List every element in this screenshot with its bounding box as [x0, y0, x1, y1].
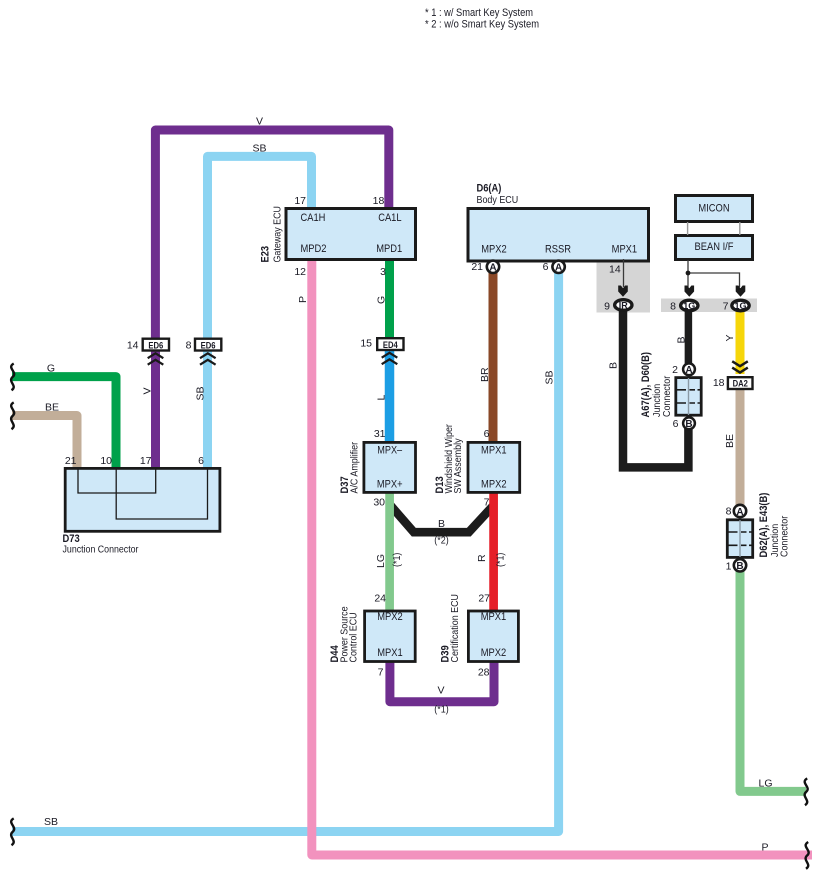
svg-text:21: 21: [471, 261, 483, 273]
svg-text:MPX+: MPX+: [377, 479, 403, 491]
BEAN I/F box: [676, 236, 753, 260]
pin 6 + node A (body RSSR): [543, 261, 565, 274]
svg-text:MPX2: MPX2: [481, 244, 507, 256]
svg-text:ED6: ED6: [148, 340, 163, 350]
svg-text:A/C Amplifier: A/C Amplifier: [349, 441, 361, 493]
connector DA2 (pin 18): [728, 377, 753, 389]
squiggle (SB wire left edge): [11, 818, 14, 845]
svg-text:G: G: [376, 296, 388, 304]
svg-text:D6(A): D6(A): [477, 183, 502, 195]
svg-text:(*2): (*2): [434, 535, 448, 547]
svg-text:SW Assembly: SW Assembly: [452, 438, 464, 494]
svg-text:(*1): (*1): [495, 553, 507, 567]
squiggle (LG wire right edge): [805, 778, 808, 805]
svg-text:CA1H: CA1H: [301, 212, 326, 224]
svg-text:B: B: [608, 362, 620, 369]
wire G (Gateway MPD1 pin 3 down to ED4 connector): [385, 259, 394, 340]
pin 21 + node A (body MPX2): [471, 261, 499, 274]
svg-text:BEAN I/F: BEAN I/F: [695, 241, 734, 253]
svg-text:14: 14: [127, 340, 139, 352]
svg-text:B: B: [676, 336, 688, 343]
svg-text:RSSR: RSSR: [545, 244, 571, 256]
svg-text:B: B: [685, 419, 692, 430]
svg-text:A: A: [685, 365, 692, 376]
connector IR (pin 9): [615, 300, 632, 311]
windshield wiper SW assembly D13 box: [468, 442, 520, 492]
wire B (1G connector down to junction connector A pin 2): [685, 309, 693, 366]
connector ED6 (pin 8): [195, 339, 221, 365]
svg-text:2: 2: [672, 364, 678, 376]
svg-text:G: G: [47, 363, 55, 375]
svg-text:SB: SB: [252, 143, 266, 155]
svg-text:Junction Connector: Junction Connector: [63, 544, 139, 556]
svg-text:V: V: [142, 387, 154, 394]
svg-text:B: B: [736, 561, 743, 572]
squiggle (BE wire left edge): [11, 402, 14, 429]
svg-text:BR: BR: [479, 367, 491, 382]
wire BR (Body ECU MPX2 pin 21 down to D13 MPX1 pin 6): [489, 272, 498, 443]
wire BE (DA2 connector down to D62 junction connector A pin 8): [736, 388, 745, 507]
connector ED6 (pin 14): [143, 339, 169, 365]
wire B (*2) (D37 MPX+ pin 30 to D13 MPX2 pin 7): [390, 505, 495, 533]
svg-text:ED6: ED6: [201, 340, 216, 350]
svg-text:P: P: [297, 296, 309, 303]
svg-text:IR: IR: [619, 301, 629, 311]
svg-text:A: A: [555, 263, 562, 274]
connector 1G (pin 7): [732, 300, 749, 311]
svg-text:6: 6: [673, 418, 679, 430]
svg-text:28: 28: [478, 667, 490, 679]
junction connector A67(A), D60(B) box: [675, 378, 702, 416]
svg-text:DA2: DA2: [733, 378, 748, 388]
svg-text:LG: LG: [375, 554, 387, 568]
svg-text:Control ECU: Control ECU: [348, 612, 360, 662]
svg-text:7: 7: [723, 301, 729, 313]
A/C amplifier D37 box: [364, 442, 416, 492]
svg-text:SB: SB: [544, 370, 556, 384]
svg-text:3: 3: [380, 266, 386, 278]
certification ECU D39 box: [468, 611, 518, 662]
svg-text:18: 18: [373, 195, 385, 207]
svg-text:24: 24: [374, 593, 386, 605]
svg-text:L: L: [376, 395, 388, 401]
svg-text:Connector: Connector: [661, 375, 673, 417]
gateway ECU E23 box: [286, 209, 416, 260]
svg-text:7: 7: [484, 497, 490, 509]
svg-text:MPD1: MPD1: [376, 243, 402, 255]
svg-text:Body ECU: Body ECU: [477, 194, 519, 206]
svg-text:B: B: [438, 518, 445, 530]
wire (MICON to BEAN I/F links): [688, 222, 740, 235]
connector 1G (pin 8): [681, 300, 698, 311]
svg-text:SB: SB: [195, 386, 207, 400]
svg-text:BE: BE: [45, 402, 59, 414]
wire V (below ED6 connector into D73 pin 17): [151, 350, 160, 470]
body ECU D6(A) box: [468, 209, 649, 262]
svg-text:12: 12: [294, 266, 306, 278]
svg-text:V: V: [437, 685, 444, 697]
svg-text:MPD2: MPD2: [301, 243, 327, 255]
arrow (into 1G right): [736, 286, 746, 297]
svg-text:A: A: [736, 507, 743, 518]
svg-text:Y: Y: [724, 334, 736, 341]
svg-text:1G: 1G: [734, 301, 746, 311]
svg-text:LG: LG: [758, 778, 772, 790]
svg-text:17: 17: [140, 455, 152, 467]
svg-text:P: P: [761, 842, 768, 854]
svg-text:Connector: Connector: [779, 515, 791, 557]
svg-text:(*1): (*1): [434, 704, 448, 716]
wire SB (Body ECU RSSR pin 6 down and left to edge): [12, 266, 559, 832]
svg-text:8: 8: [186, 340, 192, 352]
svg-text:7: 7: [378, 667, 384, 679]
wire (Body ECU MPX1 pin 14 lead): [623, 259, 625, 287]
node A (junction connector A67 pin 2): [683, 363, 695, 375]
connector ED4 (pin 15): [377, 338, 403, 364]
svg-text:V: V: [256, 116, 263, 128]
svg-text:10: 10: [100, 455, 112, 467]
wire BE (left edge to D73 pin 21): [12, 416, 77, 471]
wire Y (1G connector down to DA2 connector): [736, 310, 745, 374]
node B (junction connector D62 pin 1): [734, 559, 746, 571]
svg-text:6: 6: [543, 261, 549, 273]
svg-text:MPX2: MPX2: [481, 479, 507, 491]
junction connector D73 box: [65, 468, 220, 531]
svg-text:MPX1: MPX1: [612, 244, 638, 256]
svg-text:6: 6: [198, 455, 204, 467]
svg-text:6: 6: [484, 428, 490, 440]
node A (junction connector D62 pin 8): [734, 505, 746, 517]
node B (junction connector A67 pin 6): [683, 417, 695, 429]
svg-text:8: 8: [726, 506, 732, 518]
wire L (below ED4 connector into D37 MPX- pin 31): [385, 350, 395, 443]
wire P (Gateway MPD2 pin 12 down, right to edge): [312, 259, 812, 855]
squiggle (G wire left edge): [11, 364, 14, 391]
svg-text:Gateway ECU: Gateway ECU: [272, 206, 284, 263]
svg-text:CA1L: CA1L: [378, 212, 401, 224]
wire LG (D37 MPX+ pin 30 down to D44 MPX2 pin 24): [385, 492, 394, 611]
svg-text:E23: E23: [260, 246, 272, 263]
MICON box: [676, 196, 753, 222]
wire SB (below ED6 connector into D73 pin 6): [203, 350, 212, 470]
shaded band (1G connectors): [661, 299, 757, 313]
svg-text:BE: BE: [724, 434, 736, 448]
svg-text:MPX1: MPX1: [481, 445, 507, 457]
svg-text:1: 1: [726, 560, 732, 572]
wire B (IR connector down, right, up to junction connector B pin 6): [623, 309, 688, 467]
wire (BEAN I/F to 1G connectors, with junction dot): [686, 260, 740, 287]
svg-text:A: A: [489, 263, 496, 274]
svg-text:* 1 : w/ Smart Key System: * 1 : w/ Smart Key System: [425, 7, 533, 19]
svg-text:9: 9: [604, 301, 610, 313]
svg-text:31: 31: [374, 428, 386, 440]
svg-text:R: R: [476, 554, 488, 562]
arrow (into 1G left): [685, 286, 695, 297]
svg-text:21: 21: [65, 455, 77, 467]
squiggle (P wire right edge): [806, 842, 809, 869]
svg-text:1G: 1G: [683, 301, 695, 311]
wire V (upper loop: ED6 pin14 up, across, down to Gateway CA1L pin 18): [155, 130, 388, 340]
wire LG (D62 junction connector B pin 1 down and right to edge): [740, 569, 806, 791]
svg-text:17: 17: [294, 195, 306, 207]
svg-text:8: 8: [670, 301, 676, 313]
wire G (left edge to D73 pin 10): [12, 377, 116, 470]
svg-text:SB: SB: [44, 816, 58, 828]
svg-text:MPX2: MPX2: [377, 611, 403, 623]
svg-text:Certification ECU: Certification ECU: [449, 594, 461, 663]
svg-text:15: 15: [360, 338, 372, 350]
svg-text:18: 18: [713, 377, 725, 389]
wire R (D13 MPX2 pin 7 down to D39 MPX1 pin 27): [489, 492, 498, 611]
svg-text:27: 27: [478, 593, 490, 605]
wire SB (upper loop: ED6 pin 8 up, across, down to Gateway CA1H pin 17): [208, 156, 312, 340]
svg-text:30: 30: [373, 497, 385, 509]
power source control ECU D44 box: [365, 611, 416, 662]
wire V (*1) (D44 MPX1 pin 7 to D39 MPX2 pin 28): [390, 661, 494, 702]
svg-text:MPX1: MPX1: [481, 611, 507, 623]
svg-text:ED4: ED4: [383, 340, 398, 350]
shaded area (IR block under Body ECU MPX1): [597, 262, 651, 312]
svg-text:14: 14: [609, 264, 621, 276]
junction connector D62(A), E43(B) box: [727, 520, 754, 558]
svg-text:MPX1: MPX1: [377, 647, 403, 659]
svg-text:MPX2: MPX2: [481, 647, 507, 659]
arrow (double chevron into DA2): [732, 361, 748, 372]
svg-text:* 2 : w/o Smart Key System: * 2 : w/o Smart Key System: [425, 19, 539, 31]
arrow (into IR): [618, 286, 628, 297]
svg-text:MICON: MICON: [698, 202, 729, 214]
svg-text:MPX–: MPX–: [377, 445, 403, 457]
svg-text:(*1): (*1): [391, 553, 403, 567]
